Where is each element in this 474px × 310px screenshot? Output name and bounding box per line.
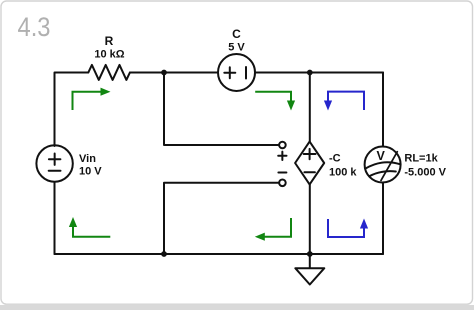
ground stub <box>309 254 311 268</box>
Vin plus symbol <box>49 154 61 165</box>
diamond plus symbol <box>304 149 316 159</box>
junction node top-right <box>307 70 313 76</box>
wire dep-source vertical upper <box>309 73 311 142</box>
wire middle branch lower <box>164 183 279 254</box>
arrowhead loop2 bottom <box>255 233 265 241</box>
wire right vertical down to voltmeter <box>382 73 384 147</box>
port terminal - circle <box>279 180 286 187</box>
current arrow loop3 top <box>328 92 364 110</box>
voltmeter lower lead <box>382 183 384 255</box>
wire: C source to top right <box>255 72 383 74</box>
current arrow loop3 bottom <box>328 219 364 237</box>
wire top: left corner to resistor <box>55 73 89 147</box>
svg-text:-C: -C <box>329 153 341 165</box>
C minus symbol (rotated bar) <box>245 67 247 79</box>
voltmeter scale arc 2 <box>369 171 396 176</box>
junction node bottom-left <box>161 251 167 257</box>
blue loop arrows <box>328 92 364 237</box>
port terminal + circle <box>279 142 286 149</box>
current arrow loop1 top <box>73 92 102 110</box>
Vin minus symbol <box>49 170 61 172</box>
svg-text:100 k: 100 k <box>329 167 357 179</box>
arrowhead loop2 top <box>287 101 295 111</box>
current arrow loop2 bottom <box>264 218 291 237</box>
current arrow loop2 top <box>255 92 291 101</box>
svg-text:V: V <box>377 149 386 163</box>
wire: resistor to C source <box>130 72 218 74</box>
wire middle branch vertical upper <box>164 73 279 146</box>
dependent source diamond <box>295 142 324 185</box>
svg-text:10 V: 10 V <box>79 166 102 178</box>
svg-text:-5.000 V: -5.000 V <box>404 167 446 179</box>
svg-text:10 kΩ: 10 kΩ <box>94 49 124 61</box>
svg-text:4.3: 4.3 <box>18 12 51 42</box>
arrowhead loop3 top <box>324 101 332 111</box>
C plus symbol <box>224 67 235 78</box>
svg-text:RL=1k: RL=1k <box>404 153 438 165</box>
port minus symbol <box>278 172 286 174</box>
arrowhead loop1 bottom <box>69 217 77 227</box>
current arrow loop1 bottom <box>73 227 110 237</box>
svg-text:5 V: 5 V <box>228 42 245 54</box>
ground symbol <box>295 268 324 284</box>
arrowhead loop1 top <box>101 88 111 96</box>
svg-text:Vin: Vin <box>79 153 96 165</box>
source Vin circle <box>36 145 72 181</box>
port plus symbol <box>278 152 286 160</box>
diamond minus symbol <box>304 171 315 173</box>
voltmeter needle <box>381 152 397 181</box>
wire left vertical lower <box>54 182 56 254</box>
arrowhead loop3 bottom <box>360 219 368 229</box>
wire bottom <box>55 253 384 255</box>
green loop arrows <box>73 92 292 237</box>
wire dep-source vertical lower <box>309 184 311 254</box>
resistor R <box>88 65 130 80</box>
junction node top-left <box>161 70 167 76</box>
voltage source C circle <box>218 54 255 91</box>
junction node bottom-right <box>307 251 313 257</box>
voltmeter scale arc 1 <box>366 162 401 168</box>
voltmeter circle <box>365 147 401 183</box>
svg-text:R: R <box>105 34 114 48</box>
svg-text:C: C <box>232 27 241 41</box>
